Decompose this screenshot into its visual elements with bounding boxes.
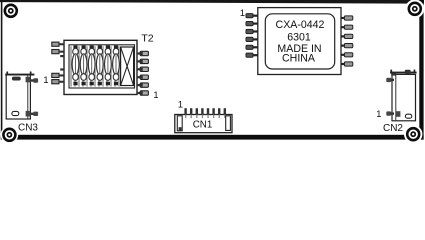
transformer T2 core box with cross: [121, 47, 134, 86]
svg-text:T2: T2: [141, 32, 153, 44]
board frame bottom edge: [1, 135, 424, 140]
transformer T2 right pins: [137, 51, 148, 95]
CN1 right end block: [226, 116, 231, 131]
svg-text:CN3: CN3: [18, 123, 38, 134]
board frame top edge: [0, 0, 424, 4]
transformer T2 left pins: [52, 42, 64, 84]
CN2 keying block top: [391, 73, 396, 76]
mounting hole top-right: [405, 0, 424, 18]
svg-text:1: 1: [43, 75, 48, 85]
connector CN1 body: [175, 115, 232, 133]
svg-text:6301: 6301: [287, 31, 311, 43]
transformer T2 windings: [71, 46, 119, 87]
CN2 keying block bottom: [396, 111, 401, 117]
svg-text:1: 1: [153, 90, 158, 100]
op-amp U1 CXA-0442 inverter module body: [258, 8, 341, 75]
CN3 bottom lead: [30, 112, 38, 116]
svg-text:CXA-0442: CXA-0442: [276, 19, 325, 31]
U1 right pins: [341, 16, 353, 66]
svg-text:1: 1: [178, 99, 183, 109]
CN3 pin 1 lead: [30, 78, 38, 82]
CN2 pin 1 lead: [386, 111, 394, 115]
connector CN2 body: [390, 70, 417, 121]
mounting hole bottom-right: [404, 125, 422, 143]
board frame left edge: [1, 0, 3, 139]
board frame right edge: [419, 0, 423, 140]
svg-text:CN1: CN1: [193, 120, 213, 131]
svg-text:CHINA: CHINA: [282, 52, 316, 64]
svg-text:1: 1: [376, 109, 381, 119]
mounting hole bottom-left: [1, 126, 19, 144]
CN3 keying block bottom: [26, 111, 31, 117]
CN2 top lead: [386, 78, 394, 82]
connector CN3 body: [5, 72, 34, 120]
mounting hole top-left: [3, 3, 19, 19]
CN2 bottom pad: [405, 114, 411, 118]
transformer T2 body: [64, 40, 137, 94]
CN3 top pad: [12, 77, 21, 81]
U1 left pins: [246, 14, 258, 58]
svg-text:CN2: CN2: [383, 123, 403, 134]
CN3 bottom pad: [12, 111, 19, 115]
CN2 inner wall line: [395, 75, 397, 120]
CN2 top pad: [405, 70, 411, 74]
CN1 left end block: [177, 116, 182, 131]
connector CN1 pins: [184, 108, 226, 115]
CN3 keying block top: [26, 77, 31, 83]
svg-text:1: 1: [240, 8, 245, 18]
CN3 inner wall line: [27, 76, 29, 119]
